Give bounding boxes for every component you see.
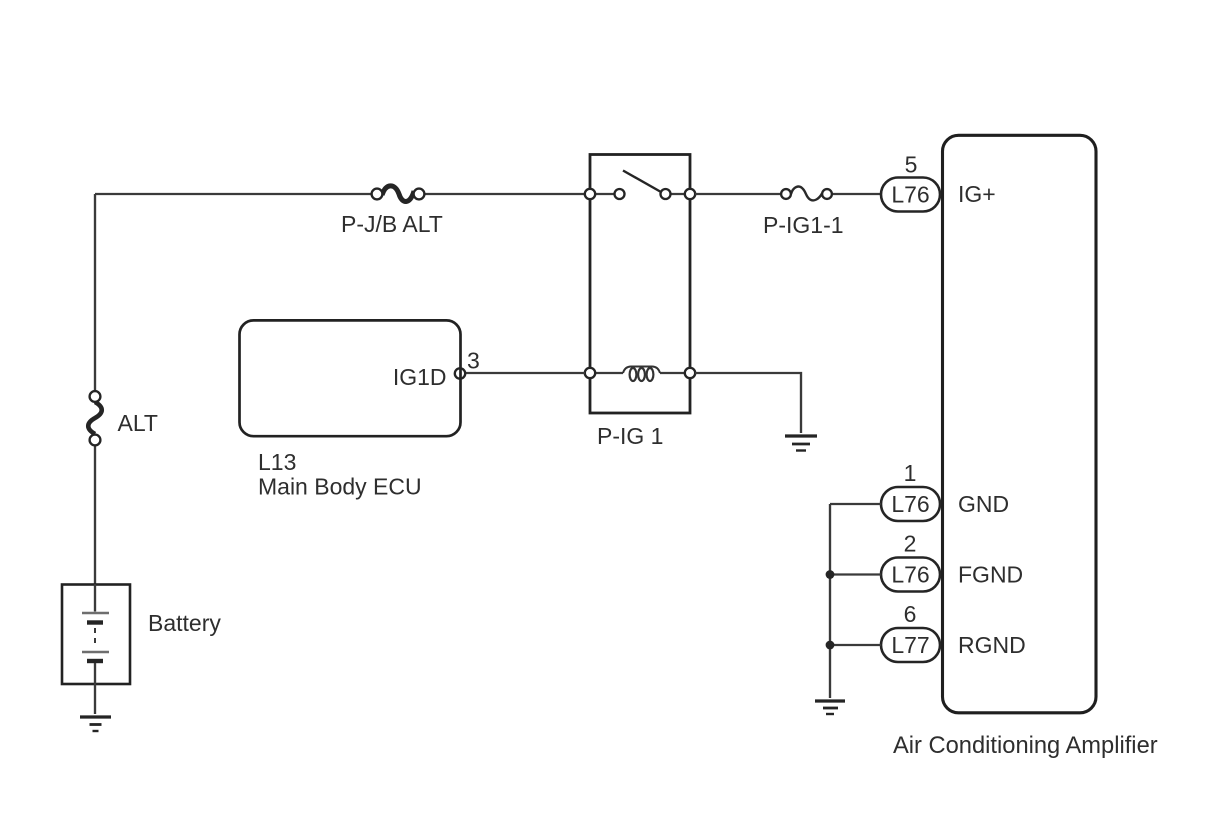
svg-text:L13: L13 [258,449,296,475]
connector oval L76 pin 2 [881,558,940,592]
wire: relay output to amplifier [695,193,881,195]
battery cell plates [82,613,109,661]
fusible link ALT [88,391,102,445]
wire: battery top vertical run up to top rail [94,194,96,584]
fuse P-IG1-1 [781,187,832,201]
node: IG1D pin 3 circle [455,368,465,378]
Air Conditioning Amplifier box [943,135,1097,713]
junction dot at RGND [826,641,835,650]
relay switch terminal circles [585,189,595,199]
ground (amplifier bus) [815,701,845,714]
svg-text:P-IG1-1: P-IG1-1 [763,212,844,238]
junction dot at FGND [826,570,835,579]
svg-text:P-IG 1: P-IG 1 [597,423,663,449]
svg-text:Air Conditioning Amplifier: Air Conditioning Amplifier [893,733,1158,759]
wire: ECU IG1D pin to relay coil [465,372,585,374]
relay coil [623,367,660,382]
wire: top horizontal rail from corner to relay [95,193,585,195]
wire: switch row inside relay [595,193,685,195]
svg-text:FGND: FGND [958,562,1023,588]
svg-text:L76: L76 [891,562,929,588]
connector oval L77 pin 6 [881,628,940,662]
connector oval L76 pin 5 [881,178,940,212]
svg-text:L77: L77 [891,632,929,658]
wire: battery bottom to ground [94,663,96,714]
wire: ground bus for GND/FGND/RGND [830,504,881,698]
svg-text:GND: GND [958,491,1009,517]
svg-text:IG+: IG+ [958,181,996,207]
svg-text:IG1D: IG1D [393,364,447,390]
ECU L13 box [240,320,461,436]
svg-text:ALT: ALT [118,410,158,436]
svg-text:RGND: RGND [958,632,1026,658]
svg-text:5: 5 [905,152,918,178]
ground (battery) [80,717,111,731]
svg-text:L76: L76 [891,182,929,208]
svg-text:2: 2 [904,531,917,557]
relay P-IG 1 box [590,155,690,414]
svg-text:3: 3 [467,348,480,374]
svg-text:Battery: Battery [148,610,221,636]
wire: relay coil to ground [695,373,801,433]
svg-text:Main Body ECU: Main Body ECU [258,474,422,500]
fusible link P-J/B ALT [372,186,425,202]
battery box [62,585,130,685]
relay coil terminal circles [585,368,595,378]
svg-text:P-J/B ALT: P-J/B ALT [341,211,443,237]
svg-text:L76: L76 [891,491,929,517]
wire: coil row inside relay [595,372,685,374]
ground (relay coil) [785,436,817,451]
svg-text:1: 1 [904,460,917,486]
relay switch blade [623,171,661,193]
svg-text:6: 6 [904,601,917,627]
connector oval L76 pin 1 [881,487,940,521]
wire: inside battery to first plate [94,584,96,612]
